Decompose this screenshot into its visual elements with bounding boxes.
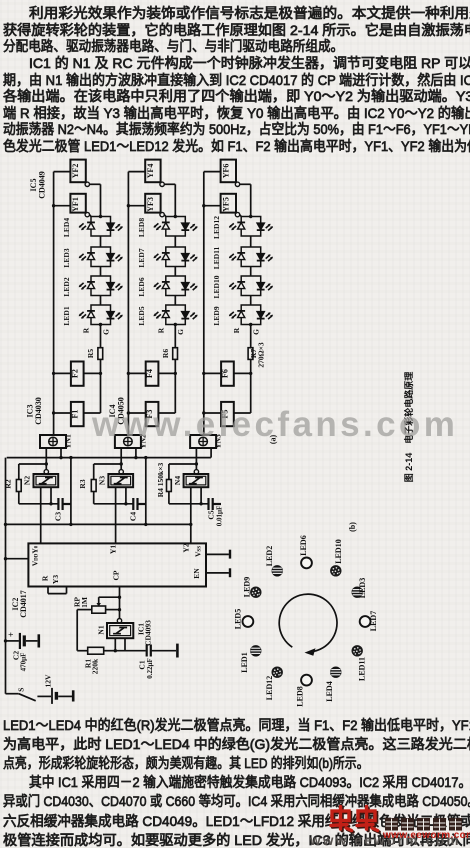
wheel LED LED11 [352,645,363,656]
wire rail YN inputs [7,457,211,459]
inverter YF6 [221,160,236,183]
dual-color LED LED5 [154,305,198,325]
wire rail lower [6,523,191,525]
wire chain bottom column 2 [174,325,176,348]
dual-color LED LED10 [229,276,273,296]
wheel LED LED8 [301,675,312,686]
wire RP to R1 [76,610,78,651]
schmitt gate N1 IC1 CD4093 [117,619,121,623]
capacitor C2 470uF [6,640,19,642]
dual-color LED LED8 [154,217,198,237]
dual-color LED LED9 [229,305,273,325]
wire input bus column 3 [203,172,205,435]
wire Y0 output to N2 [40,487,42,543]
inverter YF3 [145,194,160,213]
wire R to Y3 loop [47,587,49,594]
ground EN [229,568,231,577]
xor gate YN2 [115,435,141,448]
wire N2 feedback pin [50,487,52,504]
dual-color LED LED2 [79,276,123,296]
site name glyph blocks [385,818,462,831]
wheel LED LED7 [360,616,371,627]
dual-color LED LED11 [229,247,273,267]
wire VSS to ground [206,553,229,555]
dual-color LED LED6 [154,276,198,296]
wheel LED LED12 [272,667,283,678]
bug glyph 2 [359,808,380,832]
battery 12V [37,695,51,697]
counter IC U2 CD4017 [28,543,206,586]
wire input bus column 1 [53,172,55,435]
wire Y1 output to N3 [115,487,117,543]
wire YN3 output left [195,448,197,470]
rotation arrow [279,594,337,651]
switch S [6,693,19,695]
inverter YF1 [70,194,85,213]
wire YN1 output left [45,448,47,470]
wire N3 feedback pin [125,487,127,504]
wire N4 feedback pin [200,487,202,504]
buffer F2 [71,362,84,386]
wheel LED LED9 [250,587,261,598]
resistor R7 [248,348,253,360]
capacitor C5 [207,498,209,510]
wire CP net [119,587,121,619]
wire supply left rail [5,458,7,694]
wheel LED LED10 [330,565,341,576]
potentiometer RP 1M [92,606,106,613]
capacitor C3 [57,498,59,510]
xor gate YN3 [190,435,216,448]
schmitt gate N2 [44,470,48,474]
xor gate YN1 [40,435,66,448]
resistor R6 [173,348,178,360]
ground C2 [37,634,40,647]
dual-color LED LED12 [229,217,273,237]
wire YN1 input right [60,448,62,458]
schmitt gate N4 [194,470,198,474]
resistor R4 [169,463,197,465]
wire VDD lead [6,558,29,560]
ground C1 [176,644,179,658]
wire chain bottom column 1 [100,325,102,348]
dual-color LED LED7 [154,247,198,267]
watermark elecfans [92,405,458,445]
wire Y2 output to N4 [190,487,192,543]
wire YN3 input right [210,448,212,458]
schmitt gate N3 [119,470,123,474]
wheel LED LED2 [272,565,283,576]
wheel LED LED5 [243,616,254,627]
wire YN2 input right [135,448,137,458]
inverter YF5 [221,194,236,213]
wire N1 pins [114,638,116,651]
dual-color LED LED3 [79,247,123,267]
buffer F6 [221,362,234,386]
ground battery [72,690,75,701]
resistor R3 [94,463,122,465]
wheel LED LED6 [301,558,312,569]
resistor R5 [98,348,103,360]
inverter YF4 [145,160,160,183]
wire YN2 output left [120,448,122,470]
wire chain bottom column 3 [250,325,252,348]
capacitor C1 0.22uF [146,645,148,657]
wire input bus column 2 [127,172,129,435]
bug glyph 1 [333,808,354,832]
resistor R2 [19,463,47,465]
ground VSS [229,550,231,559]
wire EN to ground [206,572,229,574]
wheel LED LED3 [352,587,363,598]
buffer F5 [221,402,234,426]
capacitor C4 [132,498,134,510]
resistor R1 220k [88,647,104,654]
inverter YF2 [70,160,85,183]
buffer F4 [146,362,159,386]
buffer F1 [71,402,84,426]
dual-color LED LED1 [79,305,123,325]
wheel LED LED4 [330,667,341,678]
wire vertical tie 1 [70,458,72,525]
wheel LED LED1 [250,645,261,656]
wire vertical tie 2 [145,458,147,525]
dual-color LED LED4 [79,217,123,237]
buffer F3 [146,402,159,426]
